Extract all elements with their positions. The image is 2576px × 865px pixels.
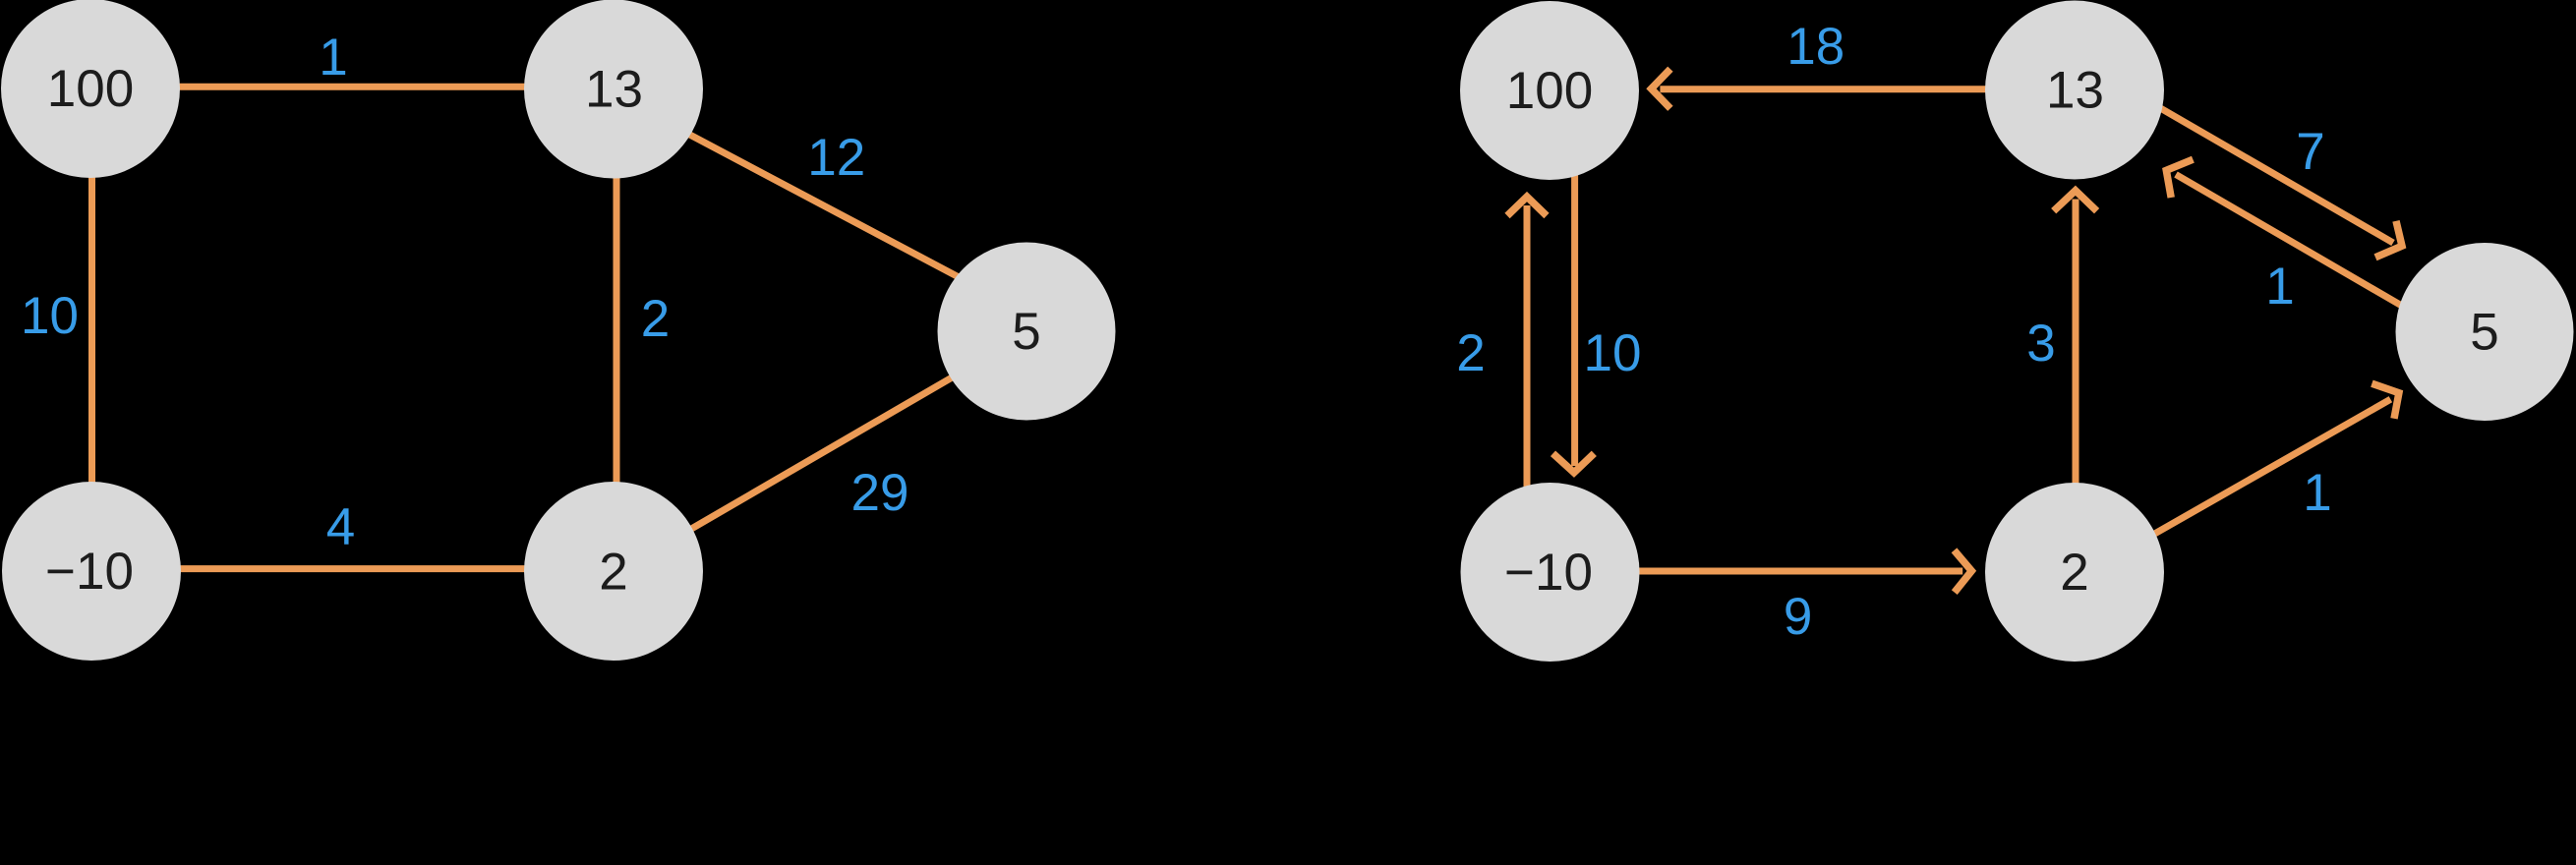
node 100 (right) [1460,1,1639,180]
arrowhead 13->100 [1652,69,1670,108]
node 13 (left) [524,0,703,179]
svg-text:1: 1 [2303,464,2331,522]
svg-text:18: 18 [1786,18,1844,76]
svg-text:−10: −10 [45,543,134,601]
svg-text:29: 29 [851,464,909,522]
wire -10->100 shaft (weight 2) [1524,205,1531,511]
arrowhead 100->-10 [1553,453,1595,473]
svg-text:4: 4 [326,498,355,556]
svg-text:13: 13 [585,61,643,119]
svg-text:10: 10 [1584,324,1642,382]
wire 100-13 [90,84,614,90]
wire 100->-10 shaft (weight 10) [1571,157,1578,466]
svg-text:1: 1 [319,29,347,86]
svg-text:2: 2 [2060,544,2088,602]
arrowhead 2->13 [2054,191,2097,211]
node 2 (right) [1985,483,2164,662]
wire 13->5 shaft (weight 7) [2148,101,2393,243]
node -10 (right) [1461,483,1640,662]
arrowhead 5->13 [2166,159,2193,198]
svg-text:12: 12 [807,129,865,187]
svg-text:1: 1 [2265,258,2294,316]
arrowhead 13->5 [2375,221,2402,258]
svg-text:3: 3 [2026,315,2055,373]
svg-text:100: 100 [1506,62,1593,120]
wire -10-2 [91,565,614,572]
arrowhead -10->2 [1955,550,1972,593]
svg-text:10: 10 [21,287,79,345]
wire 5->13 shaft (weight 1) [2176,175,2419,317]
node 5 (right) [2396,243,2574,421]
svg-text:5: 5 [2470,304,2498,362]
svg-text:−10: −10 [1504,544,1593,602]
svg-text:13: 13 [2046,62,2104,120]
wire 2->13 shaft (weight 3) [2073,200,2079,522]
wire 13-5 [617,96,1023,311]
arrowhead -10->100 [1507,197,1547,215]
svg-text:9: 9 [1784,588,1812,646]
svg-text:2: 2 [599,544,627,602]
svg-text:100: 100 [47,60,134,118]
svg-text:2: 2 [641,290,670,348]
node 13 (right) [1985,1,2164,180]
svg-text:7: 7 [2296,123,2324,181]
wire 2-5 [614,334,1026,574]
wire 13->100 shaft [1660,86,2114,92]
node 100 (left) [1,0,180,178]
wire 13-2 [614,88,620,571]
node 2 (left) [524,482,703,661]
wire -10->2 shaft (weight 9) [1593,568,1962,575]
node -10 (left) [2,482,181,661]
wire 100--10 [88,88,95,571]
svg-text:2: 2 [1456,324,1485,382]
arrowhead 2->5 [2371,383,2399,419]
wire 2->5 shaft (weight 1) [2143,399,2390,540]
node 5 (left) [938,243,1116,421]
svg-text:5: 5 [1012,303,1040,361]
